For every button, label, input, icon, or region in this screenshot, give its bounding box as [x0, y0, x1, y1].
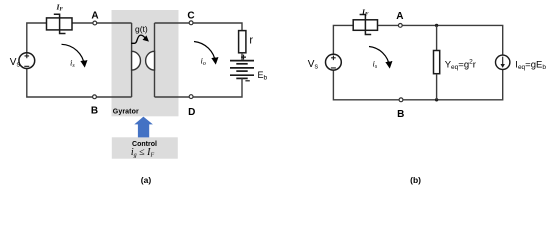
svg-text:A: A [91, 11, 98, 22]
voltage source Vs (circuit a) [19, 53, 35, 69]
wire: battery to bottom rail (circuit a) [155, 78, 243, 97]
svg-text:IF: IF [56, 2, 64, 12]
current arrow is (circuit a) [62, 44, 85, 65]
junction (bottom, circuit b) [435, 98, 438, 101]
current arrow io (circuit a) [194, 42, 216, 63]
wire: Vs top to gyrator left plate (circuit a) [27, 23, 132, 53]
svg-text:(b): (b) [410, 175, 421, 185]
gyrator right plate [146, 23, 155, 97]
node B (circuit b) [399, 98, 403, 102]
wire: Yeq to bottom rail (circuit b) [436, 74, 438, 100]
svg-text:Yeq=g2r: Yeq=g2r [445, 59, 476, 72]
svg-text:io: io [201, 56, 206, 67]
svg-text:Gyrator: Gyrator [113, 108, 139, 115]
gyrator left plate [132, 23, 141, 97]
svg-text:B: B [397, 109, 404, 120]
svg-text:g(t): g(t) [135, 24, 148, 34]
svg-text:A: A [396, 11, 403, 22]
svg-text:IF: IF [361, 7, 369, 17]
node A (circuit a) [93, 21, 97, 25]
admittance Yeq (circuit b) [434, 51, 440, 74]
svg-text:is: is [70, 58, 75, 69]
svg-text:(a): (a) [141, 175, 152, 185]
battery Eb (circuit a) [230, 61, 254, 79]
svg-text:is: is [373, 59, 378, 70]
wire: gyrator right plate to resistor (circuit a) [155, 23, 243, 31]
svg-text:C: C [187, 11, 194, 22]
current arrow is (circuit b) [369, 47, 390, 67]
battery plus terminal mark [241, 55, 246, 60]
svg-text:Ieq=gEb: Ieq=gEb [515, 59, 546, 71]
current source Ieq (circuit b) [496, 55, 510, 69]
gyrator shaded region [112, 10, 179, 116]
wire: top rail to Yeq (circuit b) [436, 25, 438, 50]
svg-text:B: B [91, 106, 98, 117]
voltage source Vs (circuit b) [326, 54, 342, 70]
node A (circuit b) [398, 24, 402, 28]
node B (circuit a) [93, 95, 97, 99]
gyration arrow (squiggle) [131, 35, 147, 43]
fuse IF (circuit a) [47, 14, 73, 33]
wire: Vs bottom to gyrator left plate (circuit a) [27, 68, 132, 97]
wire: bottom rail (circuit b) [333, 70, 502, 100]
fuse IF (circuit b) [353, 15, 377, 35]
wire: top rail (circuit b) [333, 25, 502, 54]
junction (top, circuit b) [435, 24, 438, 27]
resistor r (circuit a) [239, 31, 246, 53]
battery minus terminal mark [245, 80, 249, 82]
svg-text:r: r [249, 34, 253, 46]
node D (circuit a) [189, 95, 193, 99]
wire: resistor to battery (circuit a) [241, 53, 243, 61]
svg-text:Vs: Vs [308, 59, 319, 71]
control arrow (blue block arrow) [134, 117, 153, 138]
node C (circuit a) [189, 21, 193, 25]
svg-text:D: D [188, 107, 195, 118]
control box [112, 137, 178, 158]
svg-text:Eb: Eb [258, 70, 268, 82]
